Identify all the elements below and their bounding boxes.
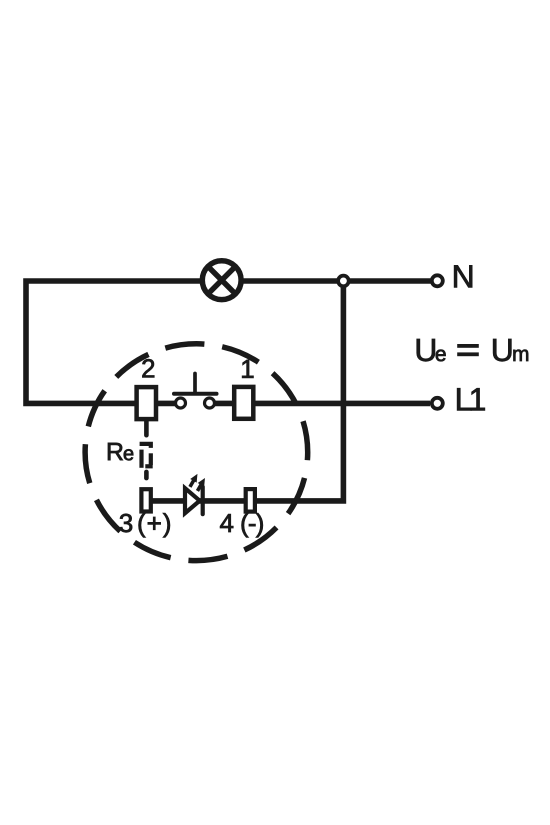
wire stub: terminal 2 to relay coil	[144, 421, 149, 435]
wire: L1-line right segment to L1 terminal	[210, 401, 431, 407]
terminal 4 (rectangle)	[246, 489, 255, 512]
push button S1: contact bar	[174, 392, 217, 396]
label L1	[457, 388, 471, 410]
node: junction on N line	[338, 276, 349, 287]
label 3 (+)	[120, 514, 132, 533]
wire: vertical drop from junction and bottom run to terminal 4	[250, 283, 343, 501]
label 1 (terminal 1)	[242, 360, 253, 378]
label Ue = Um	[417, 339, 435, 361]
LED V1: emission arrow 1	[187, 472, 201, 489]
LED V1: triangle	[185, 488, 200, 513]
label Re	[108, 443, 123, 460]
label 2 (terminal 2)	[142, 359, 154, 377]
lamp E1 (circle with X)	[202, 261, 241, 300]
terminal N (open circle)	[432, 275, 443, 286]
LED V1: emission arrow 2	[194, 476, 208, 493]
push button S1: actuator stem	[193, 374, 197, 393]
dashed device outline circle	[85, 344, 308, 561]
terminal 1 (rectangle)	[234, 387, 253, 419]
wire stub dash: coil to terminal 3	[144, 472, 149, 478]
terminal L1 (open circle)	[432, 398, 443, 409]
label N	[454, 265, 472, 287]
terminal 2 (rectangle)	[137, 387, 156, 419]
push button S1: contact circles	[176, 398, 186, 408]
relay coil Re (dashed rectangle)	[140, 444, 153, 468]
LED V1: cathode bar	[201, 487, 205, 514]
terminal 3 (rectangle)	[141, 489, 150, 511]
wire: top N-line, left drop and L1-line left segment	[26, 281, 431, 403]
label 4 (-)	[220, 514, 233, 532]
wire: bottom run terminal 3 to terminal 4 through LED	[152, 498, 244, 504]
